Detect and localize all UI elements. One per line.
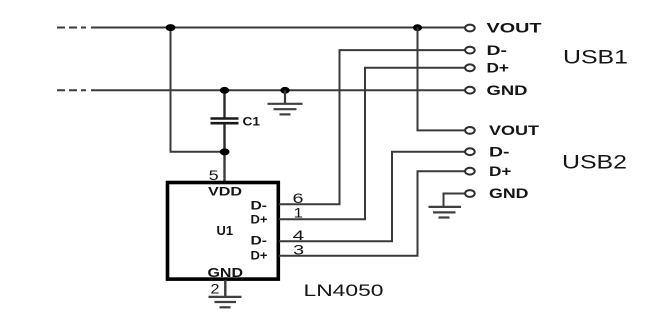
wire VDD node down to pin 5 (223, 152, 225, 182)
wire capacitor bottom lead (223, 124, 225, 152)
wire pin3 to USB2 D+ (279, 171, 466, 256)
wire GND horizontal to USB1 GND (91, 89, 466, 91)
svg-text:D+: D+ (489, 163, 512, 179)
svg-text:GND: GND (208, 266, 244, 280)
svg-text:GND: GND (487, 82, 528, 98)
wire pin6 to USB1 D- (279, 50, 466, 204)
IC U1 LN4050 body (168, 183, 279, 280)
node junction VBUS/USB2 VOUT (413, 24, 422, 31)
svg-text:D+: D+ (251, 213, 268, 227)
wire VBUS top horizontal (91, 27, 466, 29)
svg-text:C1: C1 (243, 115, 261, 129)
svg-text:U1: U1 (217, 224, 234, 238)
ground symbol USB2 (429, 207, 462, 218)
svg-text:VOUT: VOUT (489, 122, 540, 138)
node junction VDD (220, 148, 230, 155)
svg-text:GND: GND (489, 185, 529, 201)
svg-text:D-: D- (487, 42, 508, 58)
wire earth stub on GND rail (284, 90, 286, 103)
wire USB2 GND stub (444, 194, 465, 207)
svg-text:1: 1 (294, 204, 304, 220)
svg-text:VDD: VDD (208, 184, 242, 198)
svg-text:D-: D- (489, 144, 510, 160)
svg-text:VOUT: VOUT (487, 20, 543, 36)
terminal USB1 D+ (465, 64, 475, 71)
svg-text:D-: D- (251, 234, 268, 248)
ground symbol on GND rail (268, 104, 303, 115)
svg-text:2: 2 (211, 280, 220, 296)
svg-text:USB1: USB1 (563, 47, 628, 69)
wire GND dashed lead-in (57, 89, 86, 91)
terminal USB2 D- (465, 148, 475, 155)
wire IC GND pin 2 (224, 280, 226, 297)
svg-text:D+: D+ (251, 249, 268, 263)
node junction GND/earth (280, 87, 289, 94)
wire VBUS top dashed lead-in (57, 27, 86, 29)
wire VBUS to USB2 VOUT (418, 28, 466, 131)
terminal USB2 D+ (465, 168, 475, 175)
terminal USB1 VOUT (465, 25, 475, 32)
wire VBUS drop to VDD node (171, 28, 225, 152)
node junction VBUS/VDD drop (166, 24, 176, 31)
terminal USB2 GND (465, 190, 475, 197)
ground symbol below IC (209, 297, 242, 307)
wire pin4 to USB2 D- (279, 152, 466, 242)
wire capacitor top lead (223, 90, 225, 117)
terminal USB1 GND (465, 87, 475, 94)
svg-text:LN4050: LN4050 (304, 282, 384, 300)
terminal USB1 D- (465, 47, 475, 54)
svg-text:D+: D+ (487, 60, 510, 76)
capacitor C1 (211, 119, 239, 124)
terminal USB2 VOUT (465, 127, 475, 134)
wire pin1 to USB1 D+ (279, 68, 466, 219)
svg-text:5: 5 (209, 167, 219, 183)
svg-text:D-: D- (251, 198, 268, 212)
svg-text:USB2: USB2 (562, 152, 627, 174)
node junction GND/C1 (220, 87, 229, 94)
